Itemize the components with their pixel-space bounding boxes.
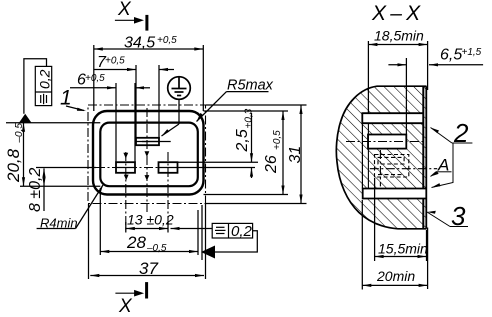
svg-text:X: X (117, 0, 132, 20)
svg-text:26: 26 (263, 155, 280, 174)
svg-text:20,8: 20,8 (4, 148, 23, 183)
svg-text:13 ±0,2: 13 ±0,2 (127, 212, 174, 228)
svg-text:2,5: 2,5 (234, 129, 251, 152)
svg-text:20min: 20min (376, 268, 415, 284)
svg-text:+0,5: +0,5 (105, 56, 125, 67)
svg-text:1: 1 (60, 87, 72, 110)
svg-text:3: 3 (451, 201, 466, 231)
svg-text:28: 28 (126, 233, 146, 252)
svg-text:37: 37 (139, 259, 158, 278)
svg-text:+1,5: +1,5 (462, 47, 482, 58)
svg-text:6,5: 6,5 (440, 47, 462, 64)
svg-text:X: X (118, 296, 133, 317)
svg-text:+0,3: +0,3 (244, 108, 255, 128)
svg-text:18,5min: 18,5min (374, 28, 424, 44)
svg-text:–0,5: –0,5 (146, 243, 167, 254)
svg-text:15,5min: 15,5min (378, 241, 428, 257)
svg-text:0,2: 0,2 (37, 69, 53, 89)
svg-text:2: 2 (453, 118, 469, 148)
svg-text:+0,5: +0,5 (157, 35, 177, 46)
svg-text:R5max: R5max (227, 78, 274, 94)
svg-text:+0,5: +0,5 (272, 130, 283, 150)
svg-text:34,5: 34,5 (124, 35, 155, 52)
svg-text:8 ±0,2: 8 ±0,2 (27, 168, 44, 212)
svg-text:A: A (437, 156, 449, 175)
svg-text:R4min: R4min (40, 216, 78, 231)
svg-text:–0,5: –0,5 (14, 123, 25, 144)
svg-text:0,2: 0,2 (231, 223, 253, 240)
svg-text:31: 31 (287, 146, 304, 164)
svg-text:+0,5: +0,5 (85, 73, 105, 84)
svg-text:X – X: X – X (371, 2, 421, 25)
